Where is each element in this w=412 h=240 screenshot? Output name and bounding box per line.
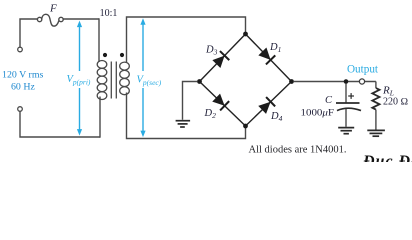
ground (capacitor) [338,128,354,134]
ground (resistor) [367,130,385,136]
wire: secondary bottom rail to bridge bottom node [127,93,246,139]
svg-text:Output: Output [347,64,379,76]
node: bridge right [289,79,294,84]
node: filter capacitor junction [344,79,349,84]
watermark (clipped bold serif text) [362,153,412,170]
svg-text:1000μF: 1000μF [301,107,335,118]
bridge edge: left node to bottom node [200,82,246,127]
svg-text:120 V rms: 120 V rms [2,69,43,80]
wire: source bottom terminal down and right (primary bottom rail) [20,111,100,137]
svg-text:C: C [325,95,333,106]
resistor RL zigzag [372,88,379,110]
wire: resistor to ground [375,110,377,130]
arrow: V primary (cyan double arrow) [77,21,82,136]
svg-text:220 Ω: 220 Ω [383,97,409,108]
bridge edge: top node to right node [246,34,292,82]
transformer T1 primary winding [97,61,107,100]
wire: primary top lead down [98,18,100,62]
arrow: V secondary (cyan double arrow) [140,18,145,137]
terminal: output (open circle) [359,79,364,84]
node: bridge left [197,79,202,84]
wire: fuse to transformer primary top [63,18,99,20]
node: bridge top [243,32,248,37]
bridge edge: left node to top node [200,34,246,82]
capacitor C plates [336,103,361,111]
transformer T1 secondary winding [120,62,130,95]
diode D2 [212,93,230,111]
diode D1 [258,47,276,65]
transformer core [111,62,116,99]
capacitor plus sign [348,93,354,99]
bridge edge: bottom node to right node [246,82,292,127]
wire: capacitor to ground [345,109,347,127]
wire: secondary top rail to bridge top node [127,17,246,63]
wire: primary bottom lead down [99,97,101,138]
svg-text:All diodes are 1N4001.: All diodes are 1N4001. [249,144,347,155]
phase dot primary [103,53,107,57]
svg-text:60 Hz: 60 Hz [11,82,35,93]
wire: bridge right node to output [294,81,376,83]
resistor RL branch: top lead [375,82,377,89]
wire: source top terminal to fuse [20,19,37,47]
svg-text:10:1: 10:1 [100,8,118,19]
diode D4 [258,97,276,115]
svg-text:F: F [49,3,57,15]
terminal: source bottom (open circle) [18,107,23,112]
capacitor C branch wire [345,84,347,103]
ground (bridge) [176,121,191,127]
terminal: source top (open circle) [18,47,23,52]
node: bridge bottom [243,124,248,129]
fuse F [37,14,63,26]
diode D3 [212,51,230,69]
phase dot secondary [120,53,124,57]
wire: bridge left node to ground [183,82,198,120]
